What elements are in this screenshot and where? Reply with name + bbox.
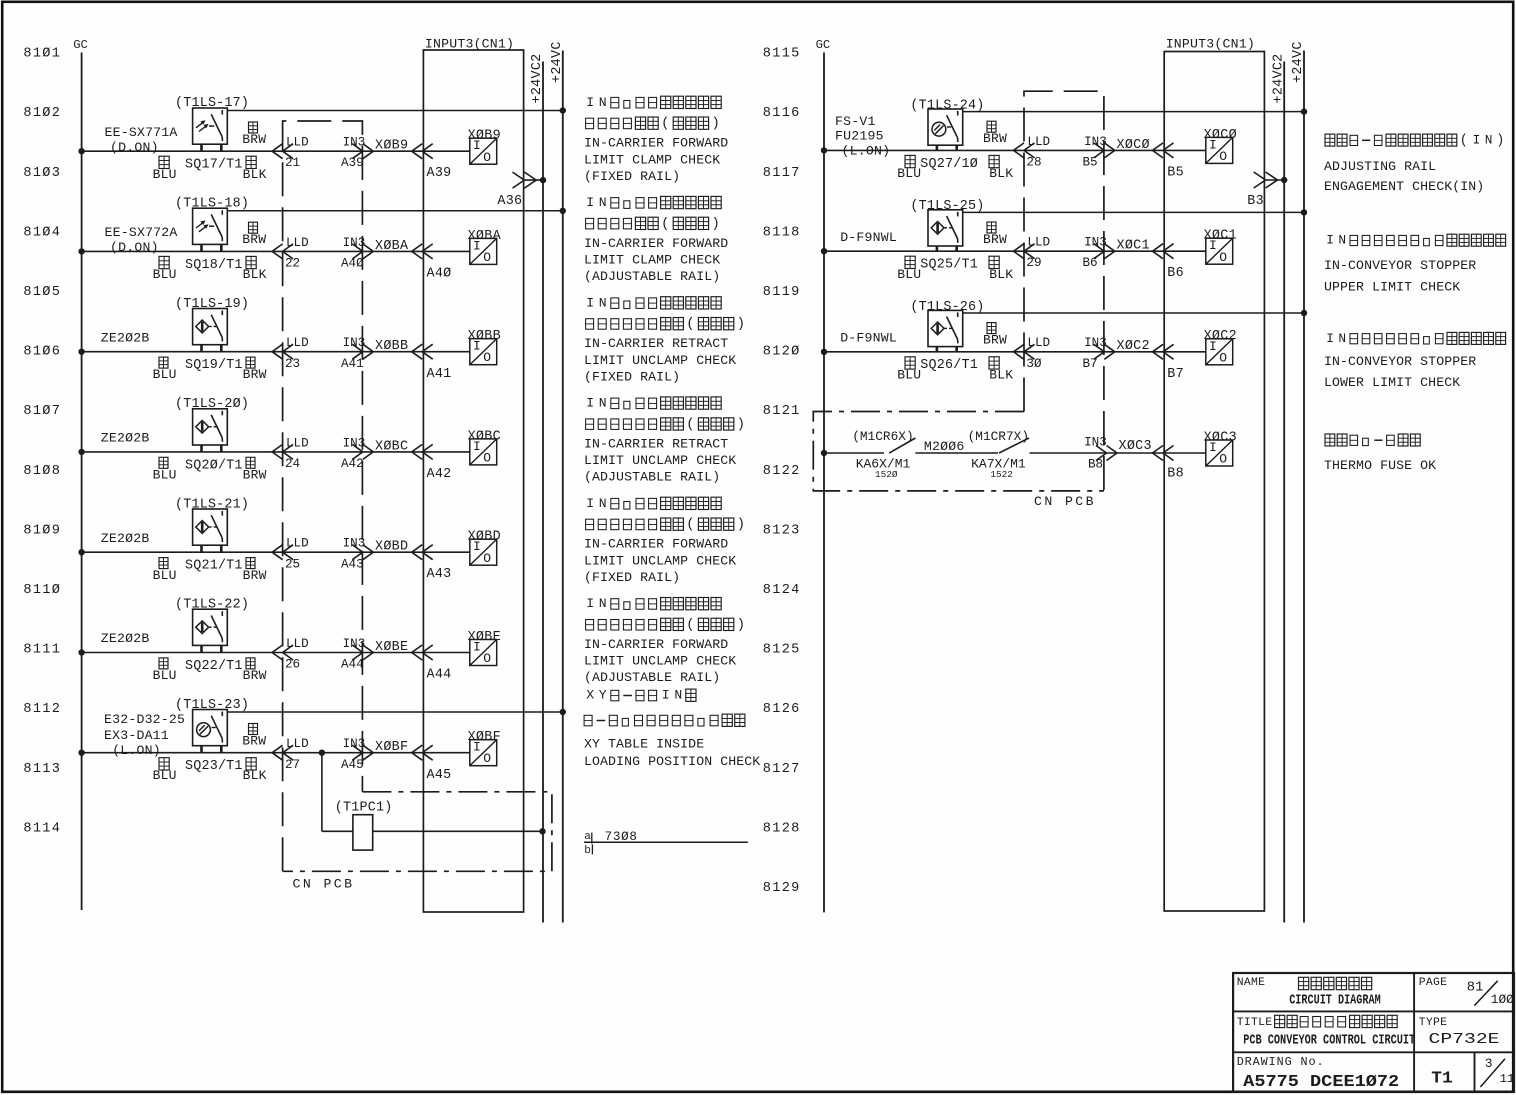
arrow into CN PCB pin LLD/27 <box>272 745 283 760</box>
wire colour labels <box>159 357 168 368</box>
svg-text:SQ17/T1: SQ17/T1 <box>185 158 243 173</box>
svg-text:(M1CR6X): (M1CR6X) <box>852 429 913 444</box>
svg-text:(FIXED RAIL): (FIXED RAIL) <box>584 169 680 184</box>
arrow into CN PCB pin LLD/24 <box>272 444 283 459</box>
svg-text:N: N <box>599 195 607 210</box>
svg-text:LOADING POSITION CHECK: LOADING POSITION CHECK <box>584 754 760 769</box>
connector INPUT3(CN1) box <box>1164 52 1264 912</box>
svg-text:SQ26/T1: SQ26/T1 <box>920 358 978 373</box>
sensor T1LS-20 (ZE202B) <box>193 409 228 445</box>
svg-text:B5: B5 <box>1167 166 1184 181</box>
svg-text:XØBD: XØBD <box>375 540 408 555</box>
svg-text:A42: A42 <box>341 457 364 471</box>
wire colour labels <box>159 558 168 569</box>
svg-text:812Ø: 812Ø <box>763 345 801 360</box>
wire colour labels <box>249 122 258 133</box>
wire colour labels <box>987 323 996 334</box>
svg-text:LIMIT UNCLAMP CHECK: LIMIT UNCLAMP CHECK <box>584 353 736 368</box>
svg-text:81Ø9: 81Ø9 <box>23 523 61 538</box>
svg-text:81: 81 <box>1467 981 1484 996</box>
svg-text:81Ø8: 81Ø8 <box>23 464 61 479</box>
svg-text:(ADJUSTABLE RAIL): (ADJUSTABLE RAIL) <box>584 670 720 685</box>
svg-text:XØBB: XØBB <box>375 339 408 354</box>
arrow from I/O module toward node X0C0 <box>1153 143 1164 158</box>
arrow IN3/B8 into PCB <box>1096 446 1107 461</box>
svg-text:A41: A41 <box>427 367 452 382</box>
svg-text:BRW: BRW <box>243 668 267 683</box>
svg-text:A45: A45 <box>427 768 452 783</box>
svg-text:BLU: BLU <box>897 367 921 382</box>
svg-text:SQ19/T1: SQ19/T1 <box>185 358 243 373</box>
CN PCB board boundary (dashed) <box>1024 91 1104 491</box>
arrow out of CN PCB IN3/A41 <box>352 344 363 359</box>
svg-text:XØBF: XØBF <box>375 740 408 755</box>
svg-text:8121: 8121 <box>763 404 801 419</box>
svg-text:Y: Y <box>599 688 607 703</box>
svg-text:LLD: LLD <box>286 236 309 250</box>
svg-text:E32-D32-25: E32-D32-25 <box>104 712 185 727</box>
svg-text:A43: A43 <box>427 567 452 582</box>
svg-text:(D.ON): (D.ON) <box>110 240 159 255</box>
svg-text:BLU: BLU <box>153 768 177 783</box>
arrow from I/O module toward node X0BD <box>412 545 423 560</box>
svg-text:BLK: BLK <box>989 267 1013 282</box>
svg-text:LOWER LIMIT CHECK: LOWER LIMIT CHECK <box>1324 375 1460 390</box>
svg-text:+24VC2: +24VC2 <box>530 53 545 103</box>
svg-text:A4Ø: A4Ø <box>341 257 364 271</box>
wire row (GC to CN PCB pin 29) <box>824 250 1206 252</box>
I/O module X0BB <box>470 339 497 365</box>
svg-text:LIMIT UNCLAMP CHECK: LIMIT UNCLAMP CHECK <box>584 453 736 468</box>
cross reference to sheet 7308 (a/b) <box>584 841 748 843</box>
description text row 8116 <box>1325 133 1504 149</box>
svg-text:I: I <box>586 95 594 110</box>
svg-text:O: O <box>483 350 491 365</box>
svg-text:I: I <box>1326 233 1334 248</box>
svg-text:8114: 8114 <box>23 821 61 836</box>
svg-text:SQ27/1Ø: SQ27/1Ø <box>920 157 978 172</box>
svg-text:B6: B6 <box>1167 266 1184 281</box>
sensor T1LS-26 (D-F9NWL) <box>928 310 963 346</box>
arrow into CN PCB pin LLD/22 <box>272 244 283 259</box>
arrow into CN PCB pin LLD/25 <box>272 545 283 560</box>
svg-text:O: O <box>483 751 491 766</box>
svg-text:LLD: LLD <box>286 537 309 551</box>
svg-text:BLU: BLU <box>153 167 177 182</box>
svg-text:CIRCUIT DIAGRAM: CIRCUIT DIAGRAM <box>1289 993 1381 1008</box>
svg-text:(T1LS-23): (T1LS-23) <box>175 698 249 713</box>
svg-text:8122: 8122 <box>763 464 801 479</box>
svg-text:FS-V1: FS-V1 <box>835 114 876 129</box>
svg-text:LLD: LLD <box>286 737 309 751</box>
svg-text:ZE2Ø2B: ZE2Ø2B <box>101 431 150 446</box>
I/O module X0BF <box>470 740 497 766</box>
wire colour labels <box>249 724 258 735</box>
svg-text:(: ( <box>661 216 669 232</box>
svg-text:BLK: BLK <box>989 367 1013 382</box>
svg-text:IN-CONVEYOR STOPPER: IN-CONVEYOR STOPPER <box>1324 354 1476 369</box>
svg-text:IN3: IN3 <box>343 436 366 450</box>
svg-text:A43: A43 <box>341 557 364 571</box>
svg-text:26: 26 <box>285 658 300 672</box>
svg-text:ZE2Ø2B: ZE2Ø2B <box>101 531 150 546</box>
bus GC vertical line <box>81 53 83 911</box>
svg-text:XØBD: XØBD <box>468 530 501 545</box>
junction on row 8112 wire (tap to T1PC1) <box>319 750 325 756</box>
svg-text:BLU: BLU <box>153 367 177 382</box>
wire row (GC to CN PCB pin 27) <box>82 752 470 754</box>
wire row (GC to CN PCB pin 25) <box>82 551 470 553</box>
svg-text:BRW: BRW <box>983 333 1007 348</box>
I/O module X0BA <box>470 238 497 264</box>
arrow into CN PCB pin LLD/29 <box>1014 244 1025 259</box>
svg-text:BLK: BLK <box>243 768 267 783</box>
arrow from I/O module toward node X0C2 <box>1153 344 1164 359</box>
svg-text:N: N <box>599 496 607 511</box>
svg-text:BLK: BLK <box>989 166 1013 181</box>
svg-text:(T1LS-18): (T1LS-18) <box>175 197 249 212</box>
svg-text:8127: 8127 <box>763 762 801 777</box>
svg-text:EE-SX771A: EE-SX771A <box>105 125 178 140</box>
svg-text:IN3: IN3 <box>1084 435 1107 449</box>
svg-text:O: O <box>483 250 491 265</box>
svg-text:(FIXED RAIL): (FIXED RAIL) <box>584 570 680 585</box>
svg-text:B5: B5 <box>1083 155 1098 169</box>
svg-text:I: I <box>1473 133 1481 148</box>
I/O module X0C0 <box>1206 137 1233 163</box>
svg-text:A44: A44 <box>427 668 452 683</box>
svg-text:CN PCB: CN PCB <box>293 877 355 892</box>
svg-text:T1: T1 <box>1431 1069 1453 1088</box>
description text row 8112 <box>586 596 721 611</box>
svg-text:(: ( <box>686 517 694 533</box>
svg-text:BLK: BLK <box>243 267 267 282</box>
svg-text:24: 24 <box>285 457 300 471</box>
junction on GC bus <box>78 248 84 254</box>
svg-text:O: O <box>483 551 491 566</box>
arrow from I/O module toward node X0BE <box>412 645 423 660</box>
svg-text:ADJUSTING RAIL: ADJUSTING RAIL <box>1324 159 1436 174</box>
svg-text:LIMIT CLAMP CHECK: LIMIT CLAMP CHECK <box>584 253 720 268</box>
svg-text:(: ( <box>661 116 669 132</box>
svg-text:11: 11 <box>1500 1072 1515 1086</box>
svg-text:IN3: IN3 <box>343 537 366 551</box>
svg-text:BLU: BLU <box>153 267 177 282</box>
arrow into CN PCB pin LLD/26 <box>272 645 283 660</box>
sensor T1LS-21 (ZE202B) <box>193 509 228 545</box>
svg-text:BLU: BLU <box>153 668 177 683</box>
svg-text:LLD: LLD <box>286 637 309 651</box>
svg-text:811Ø: 811Ø <box>23 583 61 598</box>
svg-text:XØBC: XØBC <box>375 439 408 454</box>
svg-text:22: 22 <box>285 257 300 271</box>
svg-text:IN3: IN3 <box>343 236 366 250</box>
arrow A36 (points right) <box>513 172 525 188</box>
svg-text:GC: GC <box>816 38 831 52</box>
svg-text:BLU: BLU <box>897 166 921 181</box>
svg-text:BRW: BRW <box>242 232 266 247</box>
arrow from I/O module toward node X0BB <box>412 344 423 359</box>
svg-text:N: N <box>1485 133 1493 148</box>
description text row 8106 <box>586 295 721 310</box>
svg-text:8123: 8123 <box>763 523 801 538</box>
sensor T1LS-24 (FS-V1) <box>928 109 963 145</box>
svg-text:LLD: LLD <box>286 436 309 450</box>
svg-text:UPPER LIMIT CHECK: UPPER LIMIT CHECK <box>1324 280 1460 295</box>
svg-text:BRW: BRW <box>983 232 1007 247</box>
svg-text:PCB CONVEYOR CONTROL CIRCUIT: PCB CONVEYOR CONTROL CIRCUIT <box>1243 1034 1415 1049</box>
arrow out of CN PCB IN3/B5 <box>1094 143 1105 158</box>
arrow from I/O module toward node X0BF <box>412 745 423 760</box>
svg-text:81Ø1: 81Ø1 <box>23 47 61 62</box>
description text row 8118 <box>1326 233 1505 248</box>
svg-text:(T1LS-2Ø): (T1LS-2Ø) <box>175 397 249 412</box>
svg-text:8128: 8128 <box>763 821 801 836</box>
connector INPUT3(CN1) box <box>423 50 523 912</box>
svg-text:LLD: LLD <box>1027 135 1050 149</box>
arrow from I/O module toward node X0BC <box>412 444 423 459</box>
svg-text:XØC1: XØC1 <box>1117 239 1150 254</box>
junction on +24VC2 (T1PC1 row) <box>539 828 545 834</box>
power rail +24VC <box>1303 51 1305 923</box>
wire colour labels <box>249 222 258 233</box>
svg-text:N: N <box>599 396 607 411</box>
svg-text:A44: A44 <box>341 658 364 672</box>
arrow into CN PCB pin LLD/23 <box>272 344 283 359</box>
svg-text:(: ( <box>1460 133 1468 148</box>
svg-text:8115: 8115 <box>763 47 801 62</box>
relay contact KA6X/M1 (M1CR6X) <box>889 438 915 453</box>
svg-text:O: O <box>483 451 491 466</box>
arrow out of CN PCB IN3/A43 <box>352 545 363 560</box>
svg-text:B3: B3 <box>1247 194 1264 209</box>
svg-text:8112: 8112 <box>23 702 61 717</box>
arrow into CN PCB pin LLD/21 <box>272 144 283 159</box>
svg-text:IN-CARRIER RETRACT: IN-CARRIER RETRACT <box>584 436 728 451</box>
svg-text:DRAWING No.: DRAWING No. <box>1237 1055 1325 1069</box>
svg-text:A36: A36 <box>497 194 522 209</box>
arrow out of CN PCB IN3/A42 <box>352 444 363 459</box>
svg-text:N: N <box>599 295 607 310</box>
arrow out of CN PCB IN3/A45 <box>352 745 363 760</box>
I/O module X0BE <box>470 640 497 666</box>
svg-text:I: I <box>586 396 594 411</box>
svg-text:IN3: IN3 <box>343 637 366 651</box>
sensor T1LS-23 (E32-D32-25) <box>193 710 228 746</box>
svg-text:b: b <box>584 845 591 857</box>
svg-text:): ) <box>737 416 745 432</box>
svg-text:XØC3: XØC3 <box>1119 439 1152 454</box>
svg-text:O: O <box>483 150 491 165</box>
svg-text:XØBE: XØBE <box>375 640 408 655</box>
svg-text:A5775 DCEE1Ø72: A5775 DCEE1Ø72 <box>1243 1073 1399 1092</box>
svg-text:BRW: BRW <box>243 468 267 483</box>
svg-text:N: N <box>599 95 607 110</box>
svg-text:FU2195: FU2195 <box>835 129 884 144</box>
svg-text:): ) <box>1496 133 1504 148</box>
svg-text:CN PCB: CN PCB <box>1034 494 1096 509</box>
junction on GC bus <box>78 649 84 655</box>
svg-text:M2ØØ6: M2ØØ6 <box>924 439 965 454</box>
svg-text:B6: B6 <box>1083 256 1098 270</box>
svg-text:81Ø3: 81Ø3 <box>23 166 61 181</box>
svg-text:81Ø2: 81Ø2 <box>23 106 61 121</box>
svg-text:TITLE: TITLE <box>1237 1017 1273 1029</box>
svg-text:8126: 8126 <box>763 702 801 717</box>
svg-text:O: O <box>1219 452 1227 467</box>
svg-text:CP732E: CP732E <box>1429 1031 1500 1048</box>
svg-text:+24VC2: +24VC2 <box>1271 53 1286 103</box>
svg-text:(T1LS-17): (T1LS-17) <box>175 96 249 111</box>
svg-text:BLU: BLU <box>897 267 921 282</box>
svg-text:): ) <box>737 517 745 533</box>
svg-text:IN3: IN3 <box>1084 236 1107 250</box>
sensor T1LS-18 (EE-SX772A) <box>193 208 228 244</box>
svg-text:IN3: IN3 <box>343 136 366 150</box>
arrow B3 (points right) <box>1254 172 1266 188</box>
junction A36 on +24VC2 <box>540 177 546 183</box>
svg-text:SQ23/T1: SQ23/T1 <box>185 759 243 774</box>
svg-text:A4Ø: A4Ø <box>427 267 452 282</box>
relay contact KA7X/M1 (M1CR7X) <box>999 438 1029 453</box>
svg-text:(ADJUSTABLE RAIL): (ADJUSTABLE RAIL) <box>584 269 720 284</box>
svg-text:IN-CARRIER FORWARD: IN-CARRIER FORWARD <box>584 637 728 652</box>
I/O module X0C1 <box>1206 238 1233 264</box>
svg-text:I: I <box>586 195 594 210</box>
description text row 8108 <box>586 396 721 411</box>
arrow out of CN PCB IN3/A39 <box>352 144 363 159</box>
svg-text:25: 25 <box>285 557 300 571</box>
I/O module X0C2 <box>1206 339 1233 365</box>
wire T1PC1 row 8114 <box>322 830 353 832</box>
svg-text:THERMO FUSE OK: THERMO FUSE OK <box>1324 458 1436 473</box>
svg-text:N: N <box>1338 331 1346 346</box>
svg-text:BRW: BRW <box>243 367 267 382</box>
svg-text:B7: B7 <box>1083 357 1098 371</box>
svg-text:SQ2Ø/T1: SQ2Ø/T1 <box>185 458 243 473</box>
svg-text:(T1LS-25): (T1LS-25) <box>910 199 984 214</box>
wire colour labels <box>159 658 168 669</box>
svg-text:XØBF: XØBF <box>468 730 501 745</box>
wire row 8122 (relay contacts to IN3/B8) <box>824 452 884 454</box>
svg-text:D-F9NWL: D-F9NWL <box>840 331 897 346</box>
svg-text:SQ18/T1: SQ18/T1 <box>185 258 243 273</box>
svg-text:XY TABLE INSIDE: XY TABLE INSIDE <box>584 737 704 752</box>
svg-text:SQ22/T1: SQ22/T1 <box>185 659 243 674</box>
svg-text:B7: B7 <box>1167 367 1184 382</box>
description text row 8104 <box>586 195 721 210</box>
svg-text:XØBE: XØBE <box>468 630 501 645</box>
description text row 8122 <box>1325 434 1420 446</box>
svg-text:O: O <box>1219 350 1227 365</box>
svg-text:LIMIT UNCLAMP CHECK: LIMIT UNCLAMP CHECK <box>584 553 736 568</box>
svg-text:21: 21 <box>285 156 300 170</box>
svg-text:XØCØ: XØCØ <box>1204 128 1237 143</box>
junction on GC bus <box>821 147 827 153</box>
svg-text:ENGAGEMENT CHECK(IN): ENGAGEMENT CHECK(IN) <box>1324 179 1484 194</box>
svg-text:81Ø7: 81Ø7 <box>23 404 61 419</box>
svg-text:XØBA: XØBA <box>375 239 409 254</box>
capacitor/component T1PC1 box <box>353 815 373 850</box>
svg-text:8125: 8125 <box>763 643 801 658</box>
svg-text:XØB9: XØB9 <box>375 139 408 154</box>
svg-text:73Ø8: 73Ø8 <box>605 830 638 844</box>
svg-text:(: ( <box>686 617 694 633</box>
svg-text:8111: 8111 <box>23 643 61 658</box>
svg-text:INPUT3(CN1): INPUT3(CN1) <box>425 37 514 52</box>
wire colour labels <box>987 222 996 233</box>
svg-text:3Ø: 3Ø <box>1026 357 1042 371</box>
svg-text:SQ25/T1: SQ25/T1 <box>920 258 978 273</box>
svg-text:B8: B8 <box>1167 467 1184 482</box>
svg-text:O: O <box>483 651 491 666</box>
svg-text:1ØØ: 1ØØ <box>1491 992 1514 1007</box>
svg-text:8113: 8113 <box>23 762 61 777</box>
svg-text:N: N <box>599 596 607 611</box>
svg-text:XØC3: XØC3 <box>1204 430 1237 445</box>
description text row 8110 <box>586 496 721 511</box>
svg-text:+24VC: +24VC <box>1291 41 1306 83</box>
svg-text:XØBC: XØBC <box>468 429 501 444</box>
svg-text:): ) <box>712 216 720 232</box>
svg-text:(D.ON): (D.ON) <box>110 140 159 155</box>
svg-text:8117: 8117 <box>763 166 801 181</box>
svg-text:XØBB: XØBB <box>468 329 501 344</box>
svg-text:8124: 8124 <box>763 583 801 598</box>
junction on GC bus <box>78 549 84 555</box>
svg-text:I: I <box>1326 331 1334 346</box>
svg-text:81Ø6: 81Ø6 <box>23 345 61 360</box>
svg-text:A41: A41 <box>341 357 364 371</box>
svg-text:I: I <box>662 688 670 703</box>
wire row (GC to CN PCB pin 30) <box>824 351 1206 353</box>
svg-text:XØBA: XØBA <box>468 229 502 244</box>
description text row 8102 <box>586 95 721 110</box>
svg-text:N: N <box>674 688 682 703</box>
svg-text:8118: 8118 <box>763 225 801 240</box>
svg-text:D-F9NWL: D-F9NWL <box>840 230 897 245</box>
wire B3 to +24VC2 <box>1264 179 1284 181</box>
svg-text:IN3: IN3 <box>343 336 366 350</box>
svg-text:152Ø: 152Ø <box>875 469 898 480</box>
wire row (GC to CN PCB pin 21) <box>82 150 470 152</box>
svg-text:LLD: LLD <box>1027 336 1050 350</box>
svg-text:LLD: LLD <box>1027 236 1050 250</box>
arrow out of CN PCB IN3/B6 <box>1094 244 1105 259</box>
svg-text:8116: 8116 <box>763 106 801 121</box>
arrow into CN PCB pin LLD/30 <box>1014 344 1025 359</box>
svg-text:IN-CARRIER FORWARD: IN-CARRIER FORWARD <box>584 537 728 552</box>
CN PCB board boundary (dashed) <box>283 121 363 871</box>
svg-text:ZE2Ø2B: ZE2Ø2B <box>101 631 150 646</box>
svg-text:27: 27 <box>285 758 300 772</box>
bus GC vertical line <box>823 53 825 913</box>
wire row (GC to CN PCB pin 26) <box>82 652 470 654</box>
svg-text:IN-CONVEYOR STOPPER: IN-CONVEYOR STOPPER <box>1324 258 1476 273</box>
svg-text:LIMIT CLAMP CHECK: LIMIT CLAMP CHECK <box>584 152 720 167</box>
junction on GC bus <box>78 750 84 756</box>
junction on GC bus <box>78 349 84 355</box>
svg-text:O: O <box>1219 250 1227 265</box>
svg-text:XØB9: XØB9 <box>468 129 501 144</box>
arrow from I/O module X0C3 <box>1153 446 1164 461</box>
svg-text:EE-SX772A: EE-SX772A <box>105 225 178 240</box>
svg-text:28: 28 <box>1026 155 1041 169</box>
svg-text:SQ21/T1: SQ21/T1 <box>185 559 243 574</box>
svg-text:1522: 1522 <box>990 469 1013 480</box>
description text row 8120 <box>1326 331 1505 346</box>
arrow out of CN PCB IN3/A40 <box>352 244 363 259</box>
